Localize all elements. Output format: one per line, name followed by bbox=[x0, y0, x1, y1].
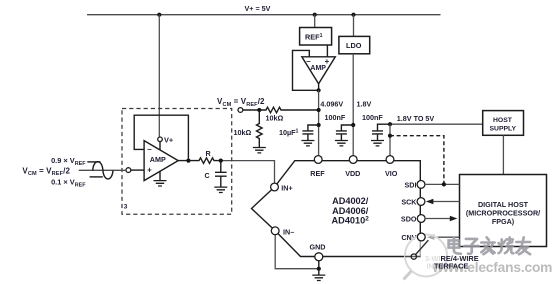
svg-text:REF: REF bbox=[310, 169, 325, 178]
svg-text:AD4006/: AD4006/ bbox=[332, 206, 369, 216]
svg-text:3: 3 bbox=[124, 204, 128, 211]
pin CNV circle bbox=[417, 233, 425, 241]
wire driver feedback loop bbox=[134, 115, 188, 160]
node SCK arrowhead bbox=[426, 199, 434, 204]
wire GND pin stub bbox=[318, 261, 320, 269]
ground under driver minus pin bbox=[159, 171, 161, 180]
node junction VCM divider bbox=[257, 108, 261, 112]
svg-text:VCM = VREF/2: VCM = VREF/2 bbox=[22, 166, 70, 177]
ground under C3 bbox=[335, 141, 348, 146]
node junction rail-amp bbox=[157, 13, 161, 17]
pin REF circle bbox=[314, 156, 322, 164]
wire rail to driver amp V+ bbox=[158, 15, 160, 137]
svg-text:SDO: SDO bbox=[401, 214, 417, 223]
regulator U3 LDO box bbox=[339, 36, 370, 53]
op-amp U6 driver AMP bbox=[144, 141, 178, 181]
wire SDO to host bbox=[425, 218, 450, 220]
node junction VDD cap bbox=[351, 123, 355, 127]
node CNV arrowhead bbox=[427, 235, 435, 240]
node junction rail-ldo bbox=[351, 13, 355, 17]
svg-text:VDD: VDD bbox=[345, 169, 360, 178]
pin IN+ circle bbox=[271, 183, 279, 191]
wire 0.9 level line bbox=[87, 161, 100, 163]
svg-text:AD4002/: AD4002/ bbox=[332, 196, 369, 206]
resistor R3 10k vertical bbox=[257, 110, 263, 147]
wire buffer output bbox=[318, 84, 320, 91]
svg-text:–: – bbox=[147, 145, 152, 154]
pin SCK circle bbox=[417, 198, 425, 206]
wire LDO output to VDD pin bbox=[352, 54, 354, 156]
ground under C2 bbox=[301, 141, 314, 146]
svg-text:+: + bbox=[147, 166, 152, 175]
pin SDO circle bbox=[417, 215, 425, 223]
switch lever redrawn bbox=[414, 240, 429, 256]
node junction VIO dashed tap bbox=[388, 134, 392, 138]
wire SCK from host bbox=[433, 201, 460, 203]
svg-text:10kΩ: 10kΩ bbox=[234, 128, 252, 137]
node junction ground net bbox=[317, 267, 321, 271]
node junction VIO supply bbox=[388, 122, 392, 126]
watermark handle bbox=[404, 271, 412, 280]
ground under R3 bbox=[253, 148, 266, 153]
wire bottom edge through watermark bbox=[405, 256, 420, 258]
svg-text:FPGA): FPGA) bbox=[492, 217, 515, 226]
IC U1 ADC body AD4002 bbox=[252, 161, 421, 257]
node + input terminal circle bbox=[126, 168, 131, 173]
ground under C4 bbox=[371, 141, 384, 146]
svg-text:100nF: 100nF bbox=[325, 113, 346, 122]
wire driver output into IN+ bbox=[221, 161, 275, 184]
node junction 10k wire to ref rail bbox=[317, 108, 321, 112]
capacitor C3 100nF bbox=[336, 125, 353, 140]
svg-text:LDO: LDO bbox=[346, 41, 362, 50]
svg-text:V+: V+ bbox=[164, 135, 174, 144]
wire V+ stub into triangle bbox=[159, 142, 161, 150]
resistor R1 output R bbox=[178, 158, 221, 164]
svg-text:10µF1: 10µF1 bbox=[279, 128, 299, 137]
reference U2 REF1 box bbox=[300, 28, 332, 46]
node VCM input terminal bbox=[238, 108, 243, 113]
node junction rail-ref bbox=[313, 13, 317, 17]
node junction driver output bbox=[186, 159, 190, 163]
svg-text:AMP: AMP bbox=[150, 155, 166, 164]
svg-text:10kΩ: 10kΩ bbox=[266, 113, 284, 122]
switch SW1 interface mode lever bbox=[414, 240, 429, 256]
svg-text:V+ = 5V: V+ = 5V bbox=[245, 4, 271, 13]
switch SW1 pivot bbox=[411, 254, 416, 259]
wire REF box to buffer + input bbox=[326, 45, 328, 57]
wire buffer feedback loop bbox=[293, 50, 319, 90]
svg-text:1.8V TO 5V: 1.8V TO 5V bbox=[397, 114, 435, 123]
op-amp U4 reference buffer AMP bbox=[302, 57, 336, 84]
ground under C1 bbox=[214, 187, 227, 192]
capacitor C2 10uF bbox=[302, 125, 318, 140]
svg-text:C: C bbox=[205, 171, 210, 180]
wire host supply to VIO bbox=[390, 123, 483, 125]
ground under GND pin bbox=[312, 275, 325, 280]
wire CNV from host bbox=[434, 236, 460, 238]
wire reference rail to REF pin bbox=[318, 90, 320, 156]
pin CNV circle redrawn bbox=[417, 233, 425, 241]
svg-text:0.1 × VREF: 0.1 × VREF bbox=[51, 178, 86, 189]
node buffer output junction bbox=[317, 88, 321, 92]
wire VIO rail bbox=[389, 124, 391, 156]
watermark chinese characters bbox=[449, 237, 530, 254]
svg-text:4.096V: 4.096V bbox=[320, 100, 343, 109]
node junction 10uF cap bbox=[317, 123, 321, 127]
svg-text:R: R bbox=[206, 149, 212, 158]
svg-text:HOST: HOST bbox=[493, 117, 513, 124]
wire VCM mid line bbox=[79, 169, 126, 171]
capacitor C4 100nF bbox=[372, 124, 390, 140]
wire ground net stem bbox=[318, 269, 320, 275]
watermark circle bbox=[405, 235, 447, 277]
wire host supply to digital host bbox=[502, 135, 504, 174]
node SDO arrowhead bbox=[450, 216, 458, 221]
svg-text:AMP: AMP bbox=[310, 65, 326, 72]
wire V+ rail bbox=[87, 14, 441, 16]
driver block dashed box bbox=[122, 109, 232, 215]
capacitor C1 bbox=[215, 161, 227, 187]
svg-text:INTERFACE: INTERFACE bbox=[427, 262, 469, 271]
IC U5 DIGITAL HOST box bbox=[460, 175, 547, 247]
svg-text:IN–: IN– bbox=[283, 227, 294, 236]
svg-text:0.9 × VREF: 0.9 × VREF bbox=[51, 156, 86, 167]
svg-text:GND: GND bbox=[310, 243, 326, 252]
pin V+ circle of driver bbox=[158, 137, 163, 142]
svg-text:SUPPLY: SUPPLY bbox=[490, 125, 517, 132]
pin SDI circle bbox=[417, 181, 425, 189]
pin VDD circle bbox=[349, 156, 357, 164]
wire SDI to host bbox=[425, 183, 460, 185]
power HOST SUPPLY box bbox=[483, 111, 524, 136]
source V1 sine symbol bbox=[93, 162, 113, 179]
wire rail to REF box bbox=[314, 15, 316, 28]
pin GND circle bbox=[315, 253, 323, 261]
resistor R2 10k horizontal bbox=[243, 107, 319, 113]
wire 0.1 level line bbox=[90, 176, 103, 178]
wire rail to LDO box bbox=[353, 15, 355, 37]
node junction SDI dashed bbox=[442, 182, 446, 186]
pin VIO circle bbox=[386, 156, 394, 164]
svg-text:100nF: 100nF bbox=[362, 113, 383, 122]
svg-text:SCK: SCK bbox=[401, 197, 417, 206]
svg-text:1.8V: 1.8V bbox=[357, 100, 372, 109]
svg-text:IN+: IN+ bbox=[281, 184, 292, 193]
svg-text:VCM = VREF/2: VCM = VREF/2 bbox=[217, 97, 265, 108]
wire dashed VIO to SDI bbox=[390, 136, 444, 185]
svg-text:AD40102: AD40102 bbox=[332, 216, 370, 226]
wire IN- to ground net bbox=[275, 234, 319, 268]
pin IN- circle bbox=[271, 227, 279, 235]
wire + input of driver bbox=[131, 169, 144, 171]
svg-text:SDI: SDI bbox=[405, 180, 417, 189]
svg-text:VIO: VIO bbox=[385, 169, 398, 178]
node junction RC bbox=[219, 159, 223, 163]
